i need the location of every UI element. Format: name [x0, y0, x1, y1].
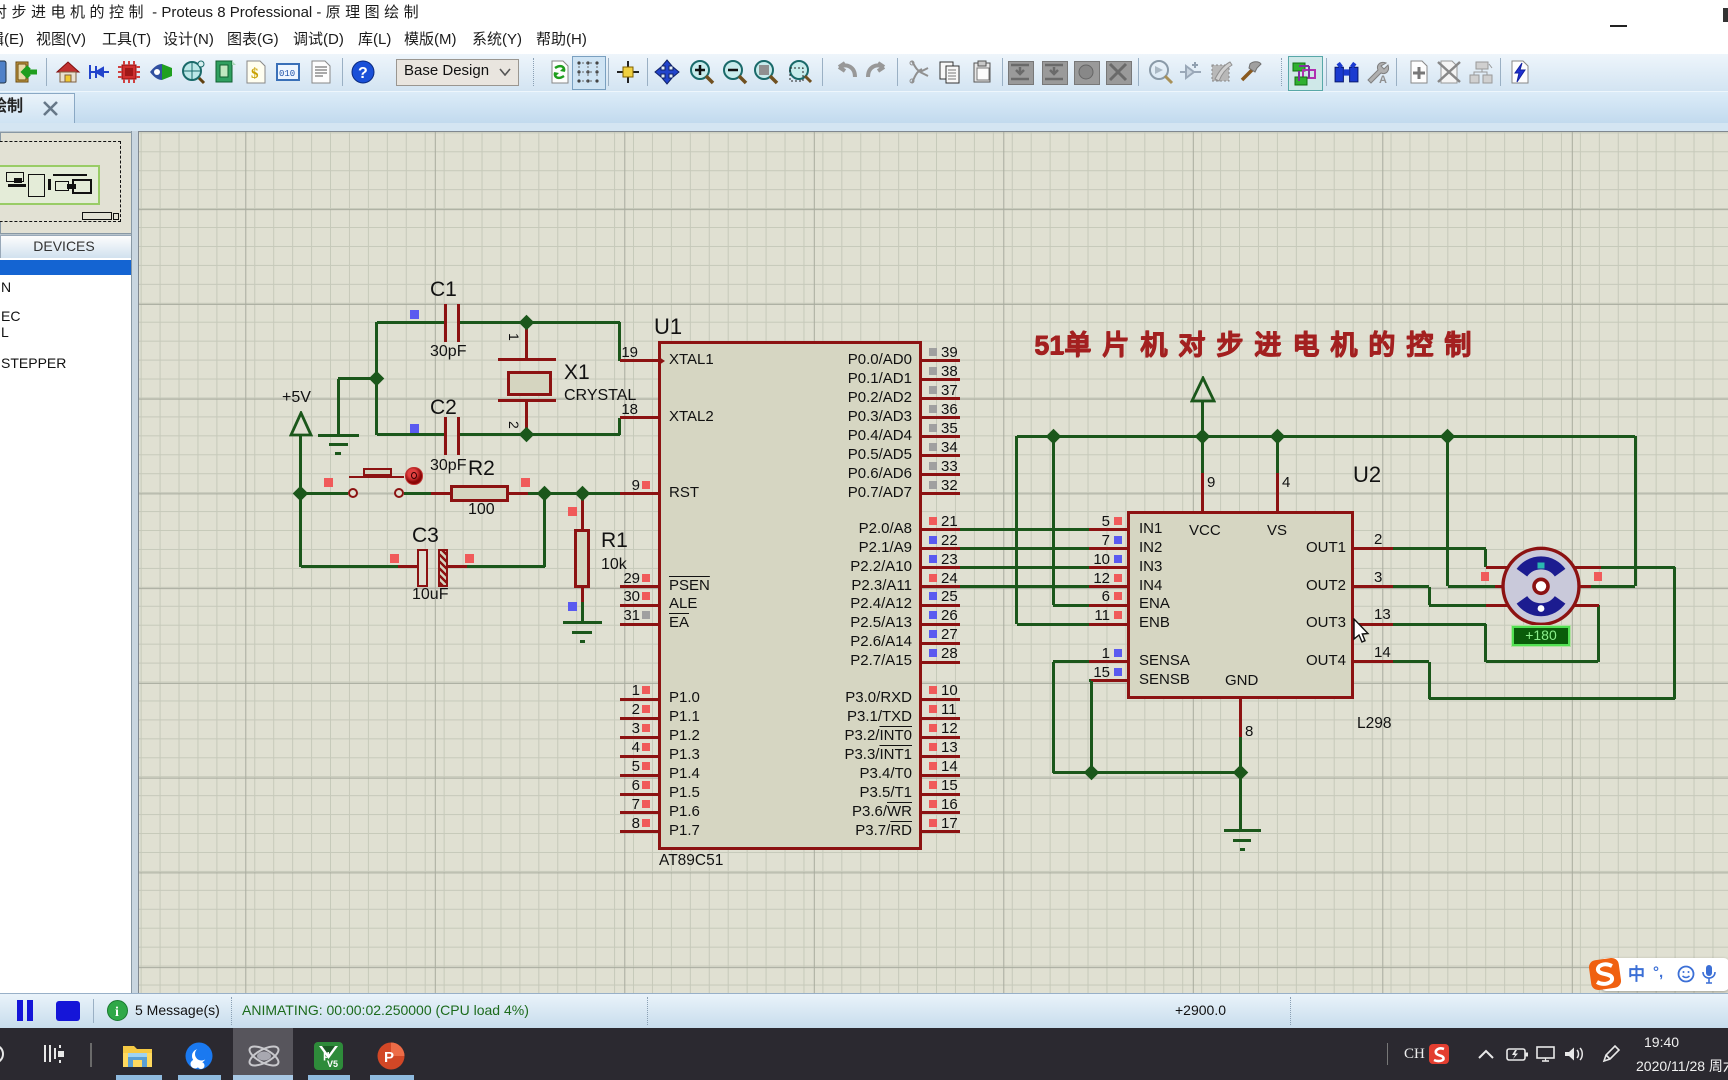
svg-text:P: P — [384, 1049, 394, 1066]
svg-text:A: A — [1379, 74, 1387, 85]
svg-text:$: $ — [251, 66, 259, 82]
svg-text:?: ? — [358, 65, 368, 82]
svg-text:i: i — [115, 1005, 119, 1020]
svg-text:V5: V5 — [327, 1059, 338, 1069]
svg-text:010: 010 — [279, 69, 295, 79]
